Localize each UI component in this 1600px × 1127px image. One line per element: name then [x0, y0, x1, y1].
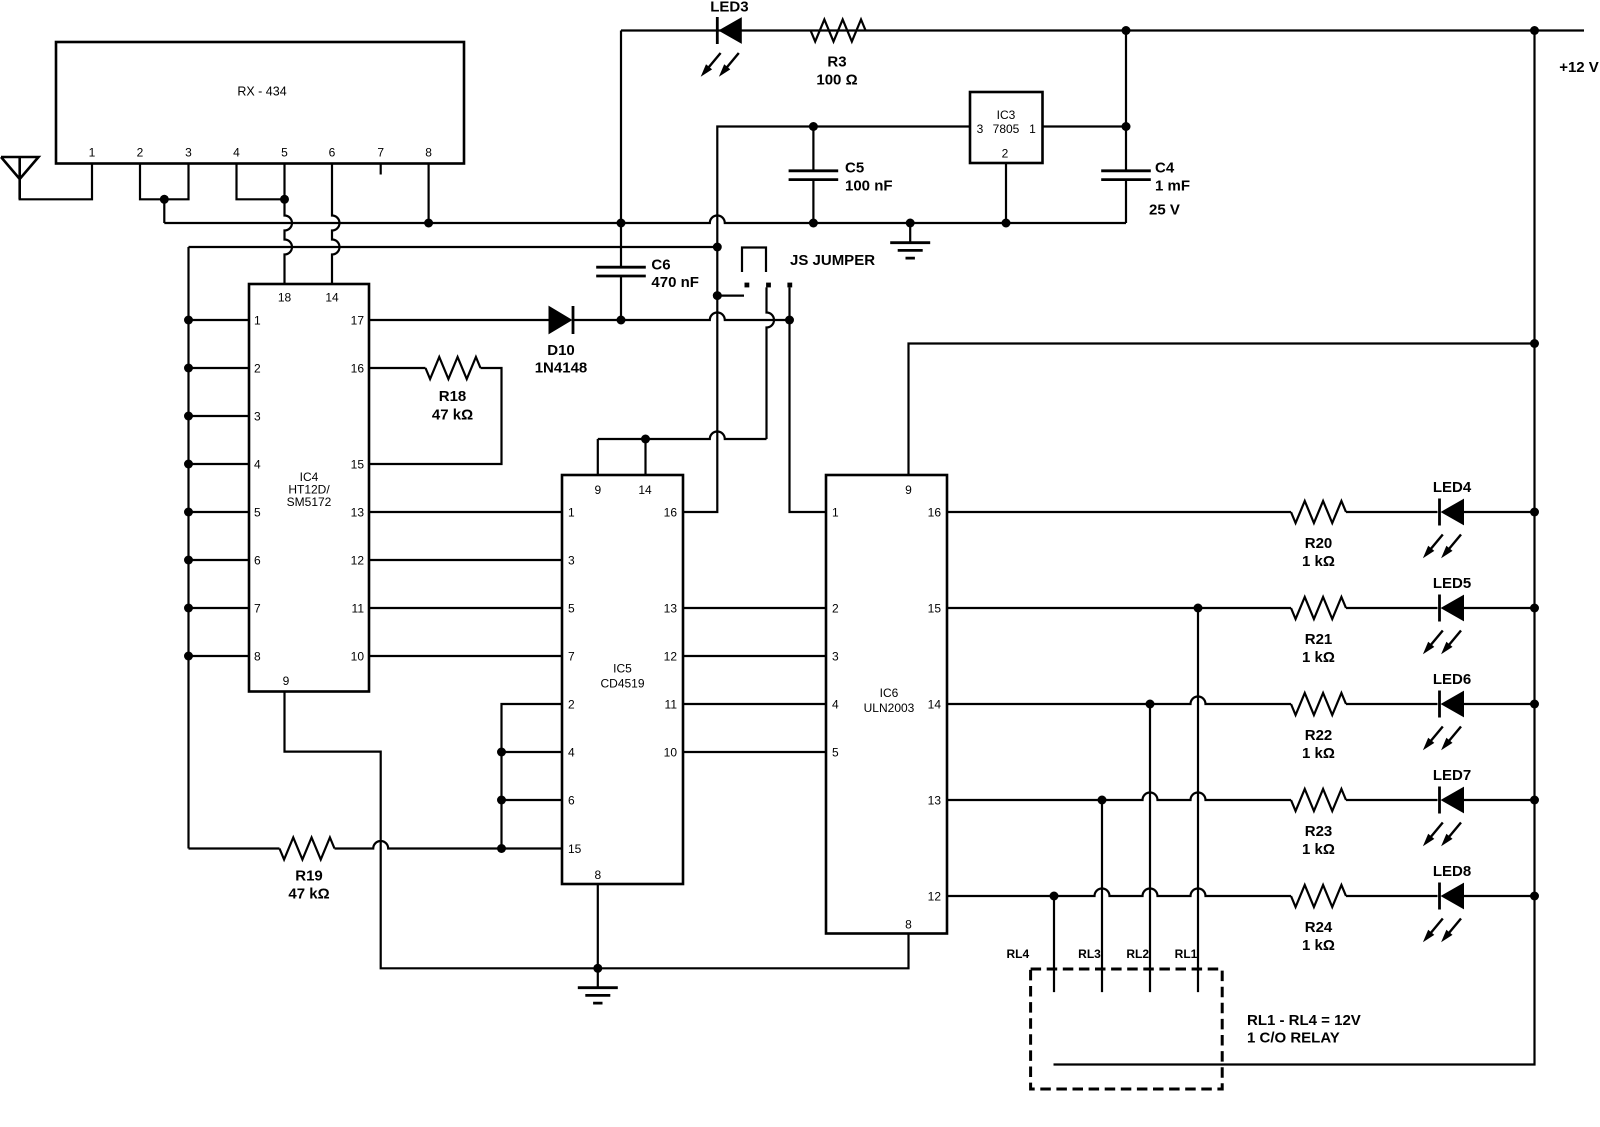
node RX pins 2-3 junction [160, 195, 169, 204]
svg-text:8: 8 [425, 146, 432, 160]
wire relay drive RL4 [1053, 896, 1055, 992]
svg-text:12: 12 [664, 650, 678, 664]
wire IC5 pin9/14 tie [598, 432, 767, 439]
svg-text:R18: R18 [439, 388, 467, 405]
svg-text:14: 14 [325, 291, 339, 305]
svg-text:LED8: LED8 [1433, 863, 1471, 880]
svg-text:12: 12 [928, 890, 942, 904]
wire antenna to RX pin 1 [20, 164, 92, 200]
node rail-LED3 branch [617, 219, 626, 228]
node IC4 bus pin 3 [184, 412, 193, 421]
svg-text:6: 6 [568, 794, 575, 808]
wire RX pin5 down to IC4 pin18 [285, 164, 293, 285]
node relay drive RL2 [1146, 700, 1155, 709]
wire IC4 pin 5 [189, 511, 250, 513]
capacitor C4 [1101, 171, 1151, 180]
node rail-C5 [809, 219, 818, 228]
wire jumper pad2 down to IC5 pins 9-14 [767, 287, 775, 439]
wire relay drive RL1 [1197, 608, 1199, 992]
svg-text:1 kΩ: 1 kΩ [1302, 841, 1335, 858]
wire IC4 pin 6 [189, 559, 250, 561]
svg-text:15: 15 [568, 842, 582, 856]
wire ground rail [164, 216, 1126, 223]
wire IC4 pin 1 [189, 319, 250, 321]
svg-text:+12 V: +12 V [1559, 59, 1599, 76]
JS jumper pads [745, 283, 750, 288]
svg-text:ULN2003: ULN2003 [864, 701, 915, 715]
svg-text:5: 5 [254, 506, 261, 520]
wire IC5 pin11 to IC6 pin4 [683, 703, 826, 705]
svg-text:7: 7 [377, 146, 384, 160]
LED LED5 [1438, 595, 1441, 622]
svg-text:4: 4 [233, 146, 240, 160]
IC6 ULN2003 box [826, 475, 947, 934]
antenna [1, 157, 39, 199]
svg-text:D10: D10 [547, 342, 575, 359]
svg-text:1 kΩ: 1 kΩ [1302, 937, 1335, 954]
IC4 HT12D box [249, 284, 369, 692]
wire IC5 pin10 to IC6 pin5 [683, 751, 826, 753]
wire IC6 output row LED6 [947, 697, 1291, 705]
svg-text:10: 10 [664, 746, 678, 760]
resistor R3 [811, 20, 866, 42]
svg-text:3: 3 [568, 554, 575, 568]
wire IC6 output row LED5 [947, 607, 1291, 609]
wire ground rail to IC6 pin8 [598, 934, 909, 969]
svg-text:1 kΩ: 1 kΩ [1302, 649, 1335, 666]
svg-text:JS JUMPER: JS JUMPER [790, 252, 875, 269]
svg-text:R19: R19 [295, 868, 323, 885]
wire relay drive RL2 [1149, 704, 1151, 992]
node relay drive RL1 [1194, 604, 1203, 613]
svg-text:CD4519: CD4519 [600, 677, 644, 691]
svg-text:15: 15 [928, 602, 942, 616]
svg-text:5: 5 [568, 602, 575, 616]
svg-text:9: 9 [283, 674, 290, 688]
node LED7 to +12V rail [1530, 796, 1539, 805]
svg-text:9: 9 [905, 483, 912, 497]
svg-text:8: 8 [254, 650, 261, 664]
svg-text:3: 3 [185, 146, 192, 160]
wire IC4 pin13 to IC5 pin1 [369, 511, 562, 513]
svg-text:14: 14 [928, 698, 942, 712]
svg-text:RL1: RL1 [1175, 947, 1198, 961]
wire IC4 pin 4 [189, 463, 250, 465]
svg-text:C6: C6 [651, 257, 670, 274]
svg-text:2: 2 [1002, 147, 1009, 161]
svg-text:1 kΩ: 1 kΩ [1302, 745, 1335, 762]
svg-text:LED6: LED6 [1433, 671, 1471, 688]
svg-text:RL1 - RL4 = 12V: RL1 - RL4 = 12V [1247, 1012, 1361, 1029]
wire IC4 pin12 to IC5 pin3 [369, 559, 562, 561]
svg-text:17: 17 [351, 314, 365, 328]
wire IC5 pins 2/4/6 bus [502, 704, 563, 849]
svg-text:1: 1 [254, 314, 261, 328]
wire 5V distribution to IC4 [189, 246, 718, 248]
svg-text:6: 6 [254, 554, 261, 568]
RX-434 receiver module box [56, 42, 464, 164]
svg-text:C5: C5 [845, 160, 864, 177]
node IC6 pin9 at rail [1530, 339, 1539, 348]
svg-text:1 kΩ: 1 kΩ [1302, 553, 1335, 570]
wire jumper pad1 to 5V vertical [717, 295, 744, 297]
wire IC3 pin2 down [1005, 163, 1007, 223]
svg-text:IC5: IC5 [613, 662, 632, 676]
LED LED6 [1438, 691, 1441, 718]
svg-text:7: 7 [254, 602, 261, 616]
LED LED8 [1438, 883, 1441, 910]
svg-text:R23: R23 [1305, 823, 1333, 840]
svg-text:7805: 7805 [993, 122, 1020, 136]
node LED8 to +12V rail [1530, 892, 1539, 901]
svg-text:14: 14 [638, 483, 652, 497]
svg-text:47 kΩ: 47 kΩ [288, 886, 329, 903]
wire +12V rail [1054, 31, 1535, 1065]
svg-text:100 nF: 100 nF [845, 178, 893, 195]
wire IC4 pin10 to IC5 pin7 [369, 655, 562, 657]
svg-text:4: 4 [568, 746, 575, 760]
svg-text:100 Ω: 100 Ω [816, 72, 857, 89]
wire top +12V feed [621, 29, 1584, 31]
svg-text:RL3: RL3 [1078, 947, 1101, 961]
svg-text:4: 4 [254, 458, 261, 472]
ground symbol logic [597, 968, 599, 987]
svg-text:5: 5 [832, 746, 839, 760]
svg-text:25 V: 25 V [1149, 202, 1180, 219]
svg-text:1 mF: 1 mF [1155, 178, 1190, 195]
svg-text:7: 7 [568, 650, 575, 664]
svg-text:LED4: LED4 [1433, 479, 1472, 496]
wire IC5 pin13 to IC6 pin2 [683, 607, 826, 609]
wire IC6 pin9 to +12V [909, 344, 1535, 476]
wire RX pin2 to pin3 [140, 164, 189, 200]
node top wire +12V rail [1530, 26, 1539, 35]
node IC4 bus pin 8 [184, 652, 193, 661]
wire IC6 output row LED7 [947, 793, 1291, 800]
node rail-IC3 pin2 [1002, 219, 1011, 228]
LED3 [716, 17, 719, 44]
svg-text:R22: R22 [1305, 727, 1333, 744]
svg-text:47 kΩ: 47 kΩ [432, 407, 473, 424]
relay module dashed box [1031, 969, 1223, 1089]
JS jumper staple [742, 248, 766, 273]
svg-text:2: 2 [137, 146, 144, 160]
wire IC6 output row LED4 [947, 511, 1291, 513]
svg-text:2: 2 [832, 602, 839, 616]
svg-text:2: 2 [254, 362, 261, 376]
wire IC5 pin8 to ground rail [597, 884, 599, 968]
svg-text:3: 3 [832, 650, 839, 664]
wire LED3 anode left drop [620, 31, 622, 268]
wire IC6 output row LED8 [947, 889, 1291, 896]
node top wire C4 branch [1122, 26, 1131, 35]
node ground rail junction [593, 964, 602, 973]
node IC4 bus pin 4 [184, 460, 193, 469]
LED LED7 [1438, 787, 1441, 814]
svg-text:1: 1 [568, 506, 575, 520]
node IC4 bus pin 7 [184, 604, 193, 613]
nodes IC5 bus [497, 748, 506, 757]
svg-text:RL2: RL2 [1126, 947, 1149, 961]
node jumper wire [713, 291, 722, 300]
svg-text:13: 13 [928, 794, 942, 808]
wire IC4 pin17 to D10 and jumper [369, 319, 550, 321]
svg-text:IC6: IC6 [880, 686, 899, 700]
svg-text:IC3: IC3 [997, 108, 1016, 122]
wire RX pin7 stub [380, 164, 382, 175]
svg-text:3: 3 [977, 122, 984, 136]
node LED5 to +12V rail [1530, 604, 1539, 613]
node IC4 bus pin 2 [184, 364, 193, 373]
svg-text:16: 16 [351, 362, 365, 376]
wire IC3 pin3 to left [683, 127, 970, 513]
resistor R19 [189, 847, 280, 849]
svg-text:11: 11 [665, 698, 678, 712]
svg-text:13: 13 [351, 506, 365, 520]
svg-text:8: 8 [594, 868, 601, 882]
capacitor C6 [596, 267, 646, 276]
svg-text:1N4148: 1N4148 [535, 360, 588, 377]
wire IC4 pin 2 [189, 367, 250, 369]
svg-text:6: 6 [329, 146, 336, 160]
wire junction down to ground rail [163, 199, 165, 223]
svg-text:R3: R3 [827, 54, 846, 71]
wire IC4 pin 7 [189, 607, 250, 609]
node jumper pad3 to IC4 pin17 wire [785, 316, 794, 325]
wire IC4 left bus [187, 247, 189, 849]
svg-text:RX - 434: RX - 434 [237, 85, 286, 99]
wire relay drive RL3 [1101, 800, 1103, 992]
wire RX pin6 down to IC4 pin14 [332, 164, 340, 285]
wire IC4 pin11 to IC5 pin5 [369, 607, 562, 609]
svg-text:16: 16 [664, 506, 678, 520]
svg-text:RL4: RL4 [1006, 947, 1029, 961]
svg-text:470 nF: 470 nF [651, 274, 699, 291]
node R19 to IC5 bus [497, 844, 506, 853]
node rail-ground symbol [906, 219, 915, 228]
svg-text:C4: C4 [1155, 160, 1175, 177]
wire IC4 pin 3 [189, 415, 250, 417]
IC3 7805 regulator box [970, 92, 1043, 163]
svg-text:1: 1 [1029, 122, 1036, 136]
wire IC3 pin1 to C4 rail [1043, 125, 1127, 127]
svg-text:LED5: LED5 [1433, 575, 1471, 592]
svg-text:10: 10 [351, 650, 365, 664]
svg-text:8: 8 [905, 918, 912, 932]
wire IC4 pin9 route to ground rail [285, 692, 598, 969]
wire IC5 pin12 to IC6 pin3 [683, 655, 826, 657]
svg-text:11: 11 [352, 602, 365, 616]
capacitor C5 [789, 171, 839, 180]
svg-text:4: 4 [832, 698, 839, 712]
svg-text:3: 3 [254, 410, 261, 424]
svg-text:12: 12 [351, 554, 365, 568]
svg-text:13: 13 [664, 602, 678, 616]
wire jumper pad3 down to IC6 pin1 [790, 287, 827, 512]
node IC4 bus pin 1 [184, 316, 193, 325]
node IC4 bus pin 5 [184, 508, 193, 517]
ground symbol power supply [909, 223, 911, 243]
svg-text:16: 16 [928, 506, 942, 520]
svg-text:R21: R21 [1305, 631, 1333, 648]
resistor R18 loop [369, 367, 426, 369]
diode D10 [549, 307, 572, 334]
svg-text:R24: R24 [1305, 919, 1333, 936]
node RX pin8 to rail [424, 219, 433, 228]
svg-text:5: 5 [281, 146, 288, 160]
svg-text:1: 1 [89, 146, 96, 160]
node C5 top [809, 122, 818, 131]
node relay drive RL4 [1050, 892, 1059, 901]
svg-text:1: 1 [832, 506, 839, 520]
IC5 CD4519 box [562, 475, 683, 884]
svg-text:SM5172: SM5172 [287, 495, 332, 509]
svg-text:15: 15 [351, 458, 365, 472]
svg-text:LED7: LED7 [1433, 767, 1471, 784]
svg-text:18: 18 [278, 291, 292, 305]
node LED6 to +12V rail [1530, 700, 1539, 709]
node C4 top wire [1122, 122, 1131, 131]
wire RX pin4 to pin5 [237, 164, 285, 200]
wire RX pin8 down to ground rail [428, 164, 430, 224]
node RX pins 4-5 junction [280, 195, 289, 204]
node IC4 bus pin 6 [184, 556, 193, 565]
node C6 bottom [617, 316, 626, 325]
svg-text:2: 2 [568, 698, 575, 712]
LED LED4 [1438, 499, 1441, 526]
svg-text:9: 9 [594, 483, 601, 497]
svg-text:R20: R20 [1305, 535, 1333, 552]
node relay drive RL3 [1098, 796, 1107, 805]
wire IC4 pin 8 [189, 655, 250, 657]
node LED4 to +12V rail [1530, 508, 1539, 517]
svg-text:1 C/O RELAY: 1 C/O RELAY [1247, 1030, 1340, 1047]
node 5V wire to vertical [713, 243, 722, 252]
node IC5 pin14 tie [641, 435, 650, 444]
svg-text:LED3: LED3 [710, 0, 748, 16]
